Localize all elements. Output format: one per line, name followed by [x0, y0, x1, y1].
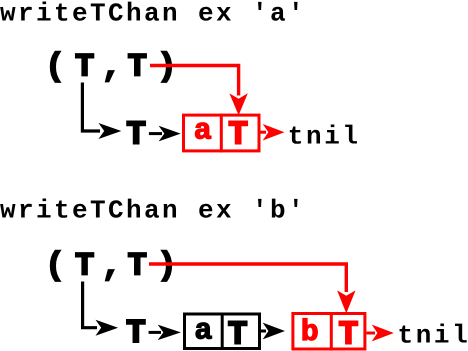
- arrowhead: red right arrow A: [264, 125, 283, 139]
- wire: black arrow A2 from T to box: [149, 132, 162, 135]
- svg-text:T: T: [338, 317, 358, 351]
- svg-text:writeTChan ex 'a': writeTChan ex 'a': [0, 0, 306, 29]
- wire: black arrow B3 from black box to red box: [261, 330, 266, 333]
- arrowhead: red right arrow B: [373, 326, 392, 341]
- box: black cell pair B: [185, 314, 260, 349]
- svg-text:a: a: [194, 315, 212, 349]
- box: red cell pair A: [184, 115, 260, 151]
- arrowhead: black right arrow B2: [159, 326, 179, 340]
- wire: divider of red box B: [330, 312, 333, 351]
- wire: red arrow B out of box: [367, 332, 376, 335]
- wire: red elbow B from tuple to new cell: [149, 264, 346, 292]
- svg-text:tnil: tnil: [288, 122, 361, 152]
- wire: black L from tuple A first T: [82, 83, 100, 132]
- arrowhead: black right arrow A2: [160, 127, 179, 141]
- wire: divider of red box A: [220, 114, 223, 153]
- wire: black L from tuple B first T: [83, 282, 97, 328]
- arrowhead: red down arrow B: [338, 292, 354, 313]
- wire: red elbow A from tuple to cell: [150, 66, 239, 96]
- svg-text:T: T: [126, 315, 146, 351]
- wire: black arrow B2 from T to box: [149, 331, 161, 334]
- svg-text:writeTChan ex 'b': writeTChan ex 'b': [0, 196, 306, 226]
- arrowhead: black right arrow B1: [97, 321, 117, 335]
- svg-text:T: T: [228, 117, 248, 154]
- box: red cell pair B: [293, 314, 365, 350]
- svg-text:(T,T): (T,T): [45, 248, 176, 285]
- svg-text:tnil: tnil: [398, 321, 468, 351]
- wire: divider of black box B: [221, 313, 224, 351]
- svg-text:T: T: [228, 317, 248, 351]
- svg-text:b: b: [301, 316, 319, 350]
- arrowhead: black right arrow B3: [264, 324, 284, 339]
- svg-text:a: a: [194, 115, 212, 149]
- arrowhead: black right arrow A1: [100, 124, 120, 138]
- svg-text:T: T: [126, 117, 146, 154]
- wire: red arrow A out of box: [260, 131, 267, 134]
- arrowhead: red down arrow A: [230, 95, 246, 115]
